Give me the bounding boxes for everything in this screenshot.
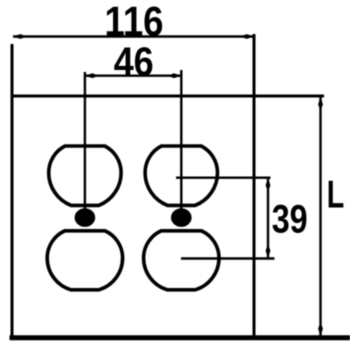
dimension line 116: [13, 35, 254, 37]
arrow L bottom: [318, 323, 323, 337]
arrow 116 right: [241, 34, 255, 39]
dimension line 46: [85, 74, 181, 76]
arrow 46 left: [85, 73, 99, 78]
arrow 116 left: [13, 34, 27, 39]
center line left receptacle (extension line for 46): [84, 72, 86, 213]
plate left edge (also extension line for 116): [11, 44, 14, 338]
center line right receptacle (extension line for 46): [180, 70, 182, 213]
svg-text:39: 39: [272, 197, 308, 241]
dimension line 39: [267, 178, 269, 258]
arrow L top: [318, 97, 323, 111]
left receptacle top opening: [49, 146, 121, 205]
plate top edge (extends right as extension line for L): [11, 95, 325, 98]
center line (extension for 39 top) from right top opening: [176, 176, 271, 178]
center line (extension for 39 bottom) from right bottom opening: [181, 257, 275, 259]
plate right edge (also extension line for 116): [253, 34, 256, 338]
left receptacle screw: [75, 208, 96, 227]
left receptacle bottom opening: [47, 231, 122, 290]
right receptacle screw: [171, 208, 192, 227]
arrow 46 right: [168, 73, 182, 78]
right receptacle top opening: [145, 146, 217, 205]
right receptacle bottom opening: [144, 231, 219, 290]
svg-text:L: L: [327, 173, 345, 216]
plate bottom edge (extends right as extension line for L): [10, 335, 350, 340]
dimension line L: [319, 97, 321, 336]
arrow 39 bottom: [266, 245, 271, 259]
arrow 39 top: [266, 178, 271, 192]
svg-text:46: 46: [114, 39, 154, 85]
